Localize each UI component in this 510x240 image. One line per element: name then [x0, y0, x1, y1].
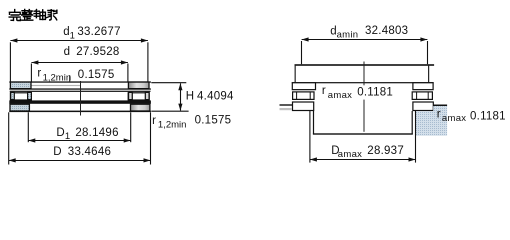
- dimension H: [151, 83, 188, 112]
- svg-text:28.937: 28.937: [367, 145, 404, 157]
- hidden grey line (washer inner silhouette): [31, 85, 80, 86]
- 轴: [34, 10, 45, 20]
- housing top edge right: [433, 105, 447, 107]
- svg-text:1: 1: [70, 30, 75, 41]
- housing washer right section (grey): [131, 104, 150, 111]
- dimension damin: [302, 40, 428, 65]
- svg-text:D: D: [53, 146, 61, 158]
- housing washer left section (blue): [10, 104, 29, 111]
- svg-text:33.2677: 33.2677: [77, 26, 120, 38]
- bearing top edge line (full width): [292, 82, 434, 83]
- housing recess walls + bottom: [313, 111, 314, 134]
- svg-text:0.1181: 0.1181: [470, 110, 506, 122]
- shaft washer left section (blue): [10, 82, 31, 89]
- dimension D1: [28, 112, 130, 142]
- svg-text:27.9528: 27.9528: [76, 46, 119, 58]
- cage+roller left section: [10, 92, 31, 100]
- svg-text:r: r: [152, 115, 156, 127]
- dimension Damax: [310, 111, 416, 163]
- svg-text:d: d: [64, 46, 70, 58]
- housing washer right section: [413, 102, 433, 111]
- svg-text:1,2min: 1,2min: [158, 120, 187, 131]
- cage bottom + housing washer top thick band: [9, 100, 151, 103]
- 承: [47, 10, 57, 20]
- svg-text:1: 1: [65, 131, 70, 142]
- svg-text:1,2min: 1,2min: [43, 72, 72, 83]
- svg-text:amax: amax: [338, 149, 362, 160]
- cage right section: [412, 92, 432, 100]
- axis centerline: [80, 81, 81, 116]
- svg-text:D: D: [56, 127, 64, 139]
- 整: [22, 10, 33, 21]
- title 完整轴承 (drawn as strokes): [9, 10, 57, 21]
- svg-text:r: r: [437, 109, 441, 121]
- svg-text:r: r: [322, 85, 326, 97]
- bearing top edge line: [9, 81, 151, 82]
- 完: [9, 10, 20, 21]
- bearing bottom edge line: [9, 111, 151, 113]
- svg-text:4.4094: 4.4094: [197, 91, 234, 103]
- svg-text:amax: amax: [442, 113, 466, 124]
- svg-text:amin: amin: [337, 29, 359, 40]
- housing shoulder line left: [280, 104, 293, 105]
- housing block right (blue): [416, 106, 447, 136]
- cage+roller right section: [128, 92, 149, 100]
- svg-text:0.1575: 0.1575: [195, 115, 232, 127]
- shaft washer left section: [292, 83, 315, 90]
- dimension D: [9, 112, 151, 164]
- dimension d: [31, 63, 128, 82]
- axis centerline right: [364, 62, 365, 86]
- housing hidden grey line left: [280, 108, 292, 110]
- svg-text:28.1496: 28.1496: [75, 127, 118, 139]
- housing washer left section: [293, 102, 314, 111]
- shaft washer right section: [413, 83, 433, 90]
- cage top edge line: [10, 91, 151, 92]
- shaft shoulder: [295, 64, 435, 66]
- shaft washer bottom edge line: [9, 88, 151, 89]
- svg-text:H: H: [186, 91, 194, 103]
- svg-text:0.1181: 0.1181: [357, 86, 393, 98]
- svg-text:0.1575: 0.1575: [78, 69, 115, 81]
- shaft washer right section (grey): [128, 82, 149, 89]
- svg-text:33.4646: 33.4646: [68, 146, 111, 158]
- cage left section: [293, 92, 314, 100]
- svg-text:r: r: [37, 68, 41, 80]
- svg-text:32.4803: 32.4803: [365, 25, 408, 37]
- svg-text:amax: amax: [328, 90, 352, 101]
- dimension d1: [10, 41, 148, 82]
